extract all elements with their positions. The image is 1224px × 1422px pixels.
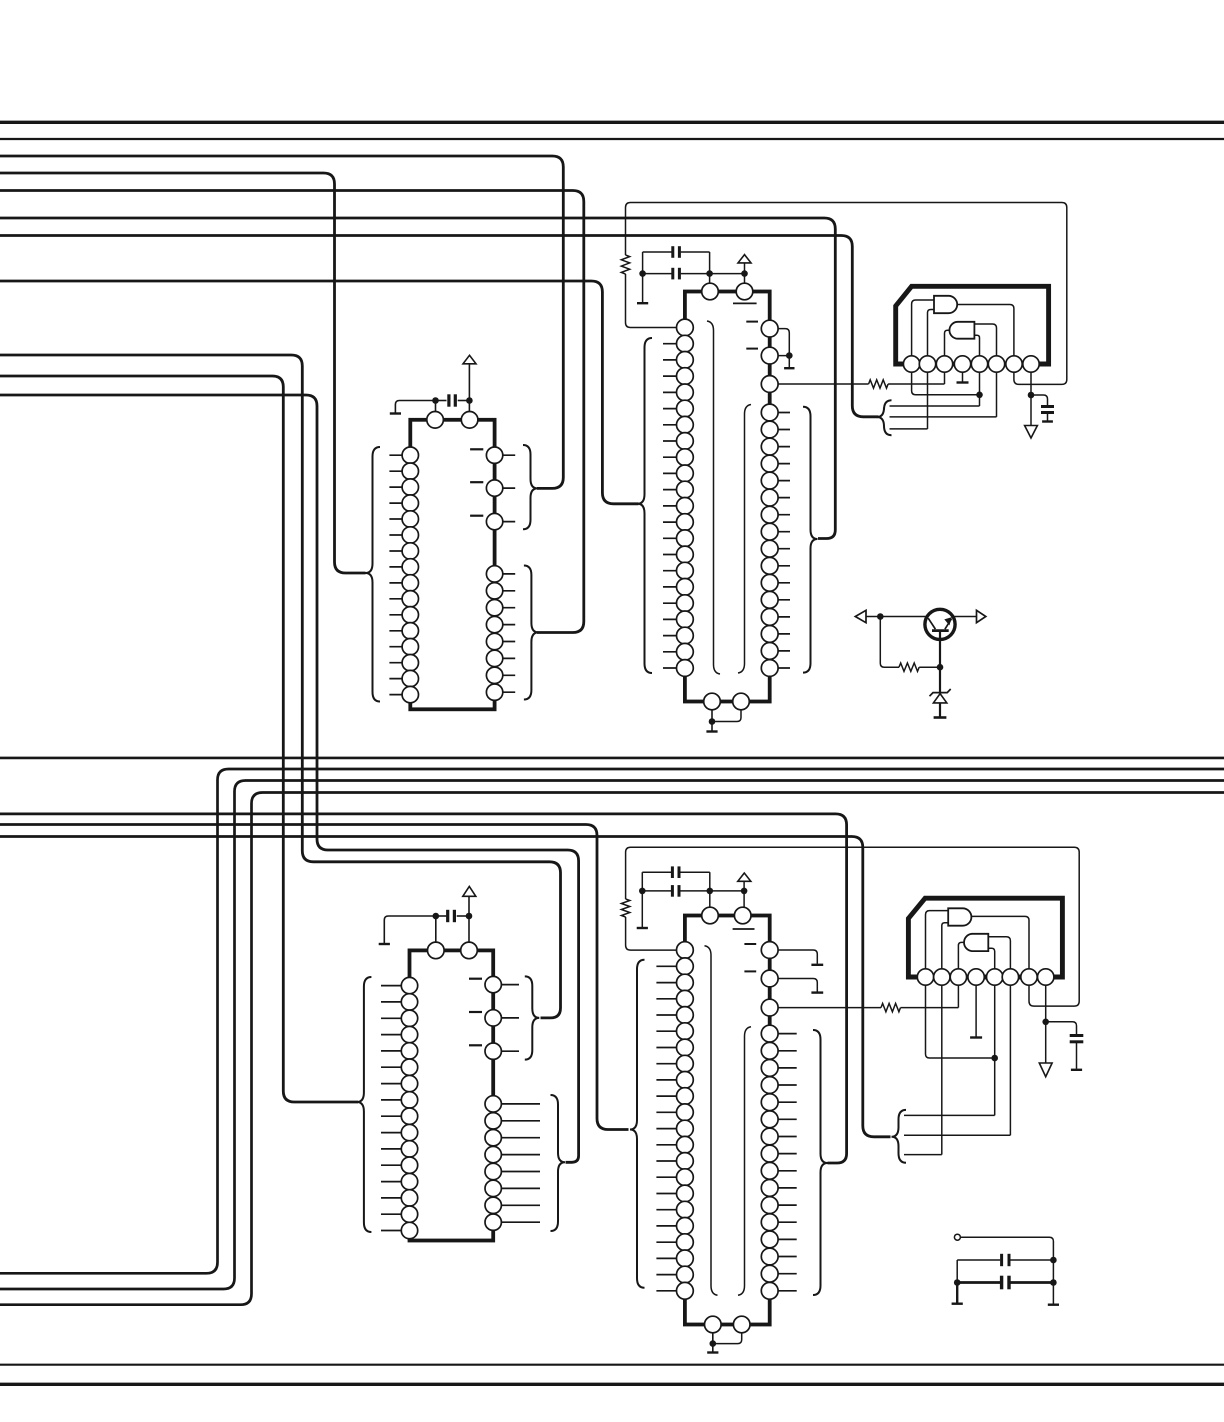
wire bus line y376 to IC3 left brace: [0, 376, 358, 1102]
node dots RC circuit: [954, 1279, 961, 1286]
wire J1 pin5 to fan line1: [979, 372, 981, 406]
wire J1 pin4 to ground: [962, 372, 964, 382]
wire IC1 right bottom pin stubs: [495, 573, 516, 575]
pins IC3 left column: [401, 977, 417, 993]
wire IC1 left pin stubs: [389, 454, 410, 456]
wire IC4 cap right node: [709, 872, 711, 907]
wire bottom bus line B: [0, 769, 1224, 1273]
wire mid separator line: [0, 757, 1224, 760]
node dots IC3 cap: [433, 913, 440, 920]
node dots IC4 cap: [639, 888, 646, 895]
resistor R4 feed to IC4 pin1 and box wire to connector: [626, 917, 685, 950]
brace IC3 left pin group: [357, 977, 372, 1232]
wire gate A2 output to J1 pin3: [945, 330, 951, 356]
wire bus line y235 to top fan brace: [0, 236, 879, 417]
wire IC3 right bottom pin stubs: [493, 1103, 540, 1105]
wire IC1 cap to ground: [395, 401, 435, 413]
active-low dash marks IC4: [744, 943, 756, 945]
capacitor C7 at J2: [1070, 1034, 1084, 1037]
wire bus line y218 to IC2 right-bottom brace: [0, 218, 835, 539]
wire bus line y190 to IC1 right-bottom brace: [0, 191, 584, 633]
pins IC1 right column: [486, 447, 502, 463]
wire J2 pin1-pin5 net: [926, 985, 995, 1058]
op-amp U1 IC1 body outline: [410, 420, 494, 710]
wire IC4 pin2 to ground: [770, 979, 818, 992]
wire bottom bus line E: [0, 793, 1224, 1305]
underline mark below IC2 top right pin: [733, 302, 757, 304]
wire bus line y156 to IC1 right-top brace: [0, 156, 563, 488]
wire gate A4 input from J2 pin5: [988, 948, 994, 969]
capacitor C6b IC4 (lower of pair): [642, 890, 671, 892]
power V+ arrow IC3: [468, 896, 470, 916]
wire bottom bus line F to IC4 right-bottom brace: [0, 814, 847, 1163]
wire IC1 right top pin stubs: [495, 454, 516, 456]
ground IC3 cap: [379, 943, 390, 945]
resistor R1 feed to IC2 pin1 and box wire to connector: [626, 274, 685, 328]
capacitor C6a IC4 (upper of pair): [642, 871, 671, 873]
wire IC2 left pin stubs: [663, 343, 685, 345]
pins J1 row: [903, 356, 919, 372]
inner bus curve IC2 left: [707, 321, 720, 674]
pins IC2 bottom: [704, 693, 721, 710]
wire D1 to ground: [939, 703, 941, 717]
transistor Q1: [925, 609, 955, 639]
zener diode D1: [930, 689, 951, 696]
fan brace below J2: [892, 1110, 907, 1163]
wire bus line y281 to IC2 left brace: [0, 281, 639, 504]
wire IC3 left pin stubs: [381, 985, 410, 987]
wire IC1 top pins to cap: [435, 401, 437, 420]
and-gate A3 in J2: [948, 908, 971, 925]
pins IC3 right column: [485, 976, 501, 992]
wire fan line1 bottom: [904, 1114, 995, 1116]
node dots IC2 cap rail: [639, 270, 646, 277]
ground IC1 cap: [390, 412, 401, 414]
wire gate A1 input2 from J1 pin2: [928, 310, 935, 356]
wire fan line2: [890, 416, 997, 418]
IC U4 IC4 body outline: [685, 916, 770, 1325]
capacitor C5 at IC3 top: [436, 915, 447, 917]
resistor R3: [899, 663, 919, 671]
wire gate A4 input from J2 pin6: [988, 937, 1010, 969]
capacitor C4 at J1: [1041, 405, 1054, 408]
wire bottom bus line H to bottom fan brace: [0, 837, 891, 1137]
wire J2 pin2 drop to fan line3: [941, 985, 943, 1154]
wire IC4 bottom pins to ground: [712, 1325, 714, 1352]
wire second top bus line: [0, 138, 1224, 140]
wire J1 pin6 drop to fan line2: [996, 372, 998, 417]
wire bus line y395 to IC3 right-bottom brace: [0, 395, 579, 1162]
wire IC3 cap to ground: [384, 916, 436, 943]
connector J2 outline: [908, 898, 1062, 977]
inner bus curve IC4 left: [705, 946, 718, 1295]
wire IC2 bottom pins to ground: [711, 702, 713, 732]
connector J1 outline: [896, 286, 1049, 364]
pins IC4 bottom: [705, 1316, 722, 1333]
wire J2 pin4 to ground: [975, 985, 977, 1036]
wire IC4 right bottom pin stubs: [770, 1033, 797, 1035]
wire bus line y355 to IC3 right-top brace: [0, 355, 561, 1018]
wire C8 left lead down: [956, 1260, 958, 1283]
capacitor C8 upper: [957, 1259, 1000, 1261]
power V+ arrow IC1: [468, 364, 470, 420]
wire IC2 pin3 to resistor R2: [770, 383, 869, 385]
pins IC3 top: [428, 942, 445, 959]
wire left rail to ground: [956, 1283, 958, 1303]
pins IC4 right column: [761, 942, 778, 959]
brace IC1 left pin group: [366, 447, 381, 702]
wire IC3 top pins to cap rail: [435, 916, 437, 950]
capacitor C1 at IC1 top: [436, 400, 447, 402]
IC U3 IC3 body outline: [410, 950, 494, 1240]
pins IC4 top: [702, 907, 719, 924]
wire fan line3 bottom: [904, 1154, 942, 1156]
wire base resistor branch: [880, 617, 899, 668]
brace IC2 left pin group: [638, 338, 653, 673]
wire J2 pin6 drop to fan line2: [1009, 985, 1011, 1135]
wire Q1 emitter-collector column: [939, 632, 941, 693]
wire IC4 cap left node to ground: [641, 872, 643, 927]
node dot IC1 cap left: [432, 397, 439, 404]
power V+ arrow IC4: [743, 881, 745, 907]
wire fan line1: [890, 405, 980, 407]
wire bottom bus line G to IC4 left brace: [0, 825, 629, 1130]
pins IC2 left column: [677, 319, 694, 336]
wire fan line3: [890, 428, 928, 430]
wire top border thick bus line: [0, 121, 1224, 124]
pins IC4 left column: [677, 942, 694, 959]
wire J1 pin8 to decoupling: [1030, 372, 1032, 426]
active-low dash marks IC1 right pins: [470, 448, 483, 450]
active-low dash marks IC3: [469, 978, 482, 980]
pins IC2 right column: [761, 320, 778, 337]
wire J1 pin2 drop to fan line3: [927, 372, 929, 429]
wire gate A1 output to J1 pin7: [957, 305, 1014, 356]
capacitor C9 lower thick rail: [957, 1281, 1000, 1284]
brace IC3 right top pin group: [525, 976, 540, 1059]
wire IC2 pin1-pin2 net to ground: [770, 329, 790, 367]
wire fan line2 bottom: [904, 1134, 1010, 1136]
and-gate A1 in J1: [934, 296, 957, 313]
wire IC4 left pin stubs: [656, 965, 685, 967]
wire bottom border thick: [0, 1383, 1224, 1386]
brace IC1 right bottom pin group: [524, 566, 539, 700]
off-page arrow left: [866, 616, 928, 618]
wire gate A1 input1 from J1 pin1: [912, 300, 934, 356]
wire J1 pin1-pin5 net: [912, 372, 980, 395]
pins IC1 top: [427, 412, 444, 429]
brace IC4 right bottom pin group: [813, 1030, 828, 1295]
wire J2 pin5 drop to fan line1: [994, 985, 996, 1115]
ground right rail: [1048, 1303, 1059, 1305]
wire bus line y173 to IC1 left brace: [0, 173, 366, 573]
brace IC3 right bottom pin group: [551, 1095, 566, 1231]
power down arrow J2: [1039, 1063, 1052, 1077]
wire terminal to right rail: [960, 1237, 1053, 1304]
capacitor C3 IC2 (lower of pair): [643, 273, 672, 275]
wire IC2 cap left node to ground: [642, 252, 644, 302]
wire IC4 pin3 to resistor R5: [770, 1007, 881, 1009]
wire gate A2 input from J1 pin6: [974, 324, 996, 356]
wire IC2 cap right node: [709, 252, 711, 284]
wire gate A3 output to J2 pin7: [971, 916, 1029, 968]
inner bus curve IC2 right: [738, 405, 751, 674]
brace IC4 left pin group: [630, 960, 645, 1288]
wire gate A3 input2 from J2 pin2: [942, 923, 948, 969]
active-low dash marks IC2: [746, 321, 758, 323]
and-gate A4 in J2 (mirrored): [964, 934, 988, 951]
power V+ arrow IC2: [744, 263, 746, 284]
wire J2 pin8 to decoupling: [1045, 985, 1047, 1063]
and-gate A2 in J1 (mirrored): [949, 322, 974, 339]
power down arrow J1: [1025, 426, 1038, 439]
pins J2 row: [917, 969, 933, 985]
wire bottom bus line C: [0, 781, 1224, 1290]
wire IC4 pin1 to ground: [770, 950, 818, 964]
fan brace right of IC2: [877, 400, 892, 435]
capacitor C2 IC2 (upper of pair): [643, 251, 672, 253]
brace IC2 right bottom pin group: [803, 407, 818, 673]
resistor R2: [869, 380, 889, 388]
wire IC3 right top pin stubs: [493, 984, 519, 986]
wire gate A4 output to J2 pin3: [958, 942, 964, 968]
node dot IC1 cap right: [466, 397, 473, 404]
off-page arrow right: [953, 616, 977, 618]
IC U2 IC2 body outline: [685, 292, 770, 702]
pins IC1 left column: [402, 447, 418, 463]
brace IC1 right top pin group: [523, 445, 538, 529]
pins IC2 top: [702, 283, 719, 300]
wire gate A3 input1 from J2 pin1: [926, 911, 948, 969]
terminal node bottom right: [954, 1234, 960, 1240]
wire bottom separator thin: [0, 1364, 1224, 1366]
resistor R5: [881, 1003, 901, 1011]
underline mark below IC4 top right pin: [733, 928, 755, 930]
wire IC2 right bottom pin stubs: [770, 412, 790, 414]
inner bus curve IC4 right: [738, 1027, 751, 1295]
wire gate A2 input from J1 pin5: [974, 335, 979, 356]
